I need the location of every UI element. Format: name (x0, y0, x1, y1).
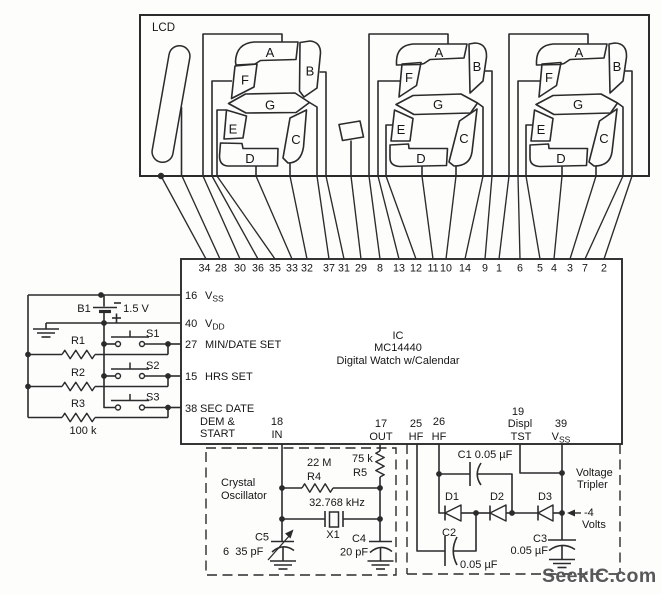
LCD backplane node (158, 173, 164, 179)
digit2 segment C lead (289, 164, 291, 177)
switch S2 (116, 374, 121, 379)
wire D3 to output node (553, 512, 562, 514)
svg-text:A: A (435, 45, 444, 60)
battery minus sign (114, 302, 121, 304)
wire LCD to IC pin 36 (212, 176, 258, 259)
svg-text:22 M: 22 M (307, 457, 331, 469)
svg-text:Crystal: Crystal (221, 477, 255, 489)
svg-text:40: 40 (185, 318, 197, 330)
digit2 segment C (283, 110, 307, 163)
svg-text:F: F (241, 73, 249, 88)
node battery bottom (101, 320, 107, 326)
wire S2 node down to R2 (167, 376, 169, 387)
wire pin 19 down (520, 444, 562, 473)
svg-text:30: 30 (234, 263, 246, 275)
svg-text:37: 37 (323, 263, 335, 275)
svg-text:33: 33 (286, 263, 298, 275)
svg-text:OUT: OUT (369, 431, 393, 443)
wire S1 node down to R1 (167, 344, 169, 355)
segment F lead (378, 81, 401, 176)
svg-text:3: 3 (567, 263, 573, 275)
svg-text:START: START (200, 428, 235, 440)
wire LCD to IC pin 13 (378, 176, 399, 259)
svg-text:HF: HF (409, 431, 424, 443)
wire LCD to IC pin 29 (351, 176, 361, 259)
segment E (391, 110, 413, 141)
svg-text:32.768 kHz: 32.768 kHz (309, 497, 365, 509)
node D2-D3 (509, 510, 515, 516)
svg-text:B1: B1 (77, 303, 90, 315)
svg-text:12: 12 (410, 263, 422, 275)
wire LCD to IC pin 2 (604, 176, 632, 259)
resistor R5 (376, 451, 384, 477)
LCD panel outline (140, 15, 649, 176)
svg-text:35: 35 (269, 263, 281, 275)
svg-text:20 pF: 20 pF (340, 547, 368, 559)
segment G (396, 94, 478, 115)
crystal oscillator dashed box (206, 448, 396, 575)
svg-text:27: 27 (185, 339, 197, 351)
svg-text:C2: C2 (442, 527, 456, 539)
svg-text:R3: R3 (71, 398, 85, 410)
segment F (399, 63, 421, 98)
wire LCD to IC pin 32 (290, 176, 307, 259)
wire LCD to IC pin 3 (570, 176, 596, 259)
svg-text:SeekIC.com: SeekIC.com (542, 565, 657, 587)
wire left bus vertical (27, 295, 29, 418)
LCD digit 4 group frame wire (509, 34, 632, 176)
svg-text:18: 18 (271, 416, 283, 428)
svg-text:34: 34 (199, 263, 211, 275)
node bus S1 (101, 341, 107, 347)
segment G (536, 94, 618, 115)
svg-text:IC: IC (393, 330, 404, 342)
segment E lead (526, 125, 533, 176)
svg-text:B: B (613, 59, 622, 74)
segment C (589, 109, 617, 166)
op IC U1 MC14440 body (181, 259, 622, 444)
svg-text:C4: C4 (352, 533, 366, 545)
svg-text:32: 32 (301, 263, 313, 275)
segment C (449, 109, 477, 166)
svg-text:R5: R5 (353, 467, 367, 479)
svg-text:14: 14 (459, 263, 471, 275)
svg-text:G: G (573, 97, 583, 112)
svg-text:IN: IN (272, 429, 283, 441)
svg-text:8: 8 (377, 263, 383, 275)
segment E (531, 110, 553, 141)
digit2 segment F lead (212, 81, 232, 176)
wire switch bus vertical (104, 323, 116, 408)
svg-text:2: 2 (601, 263, 607, 275)
svg-text:36: 36 (252, 263, 264, 275)
svg-text:S3: S3 (146, 392, 159, 404)
wire D1 to node (461, 512, 476, 514)
svg-text:0.05 µF: 0.05 µF (460, 559, 498, 571)
svg-text:Voltage: Voltage (576, 467, 613, 479)
svg-text:C1 0.05 µF: C1 0.05 µF (458, 449, 513, 461)
wire S3 to pin 38 (145, 407, 169, 409)
variable capacitor C5 (271, 541, 294, 543)
svg-text:HF: HF (432, 431, 447, 443)
svg-text:Tripler: Tripler (577, 479, 608, 491)
diode D3 (537, 506, 539, 521)
wire LCD to IC pin 34 (161, 176, 206, 259)
svg-text:13: 13 (393, 263, 405, 275)
wire LCD to IC pin 4 (554, 176, 562, 259)
digit2 segment A (236, 42, 299, 65)
segment B lead (485, 71, 493, 176)
svg-text:-4: -4 (584, 507, 594, 519)
svg-text:B: B (473, 59, 482, 74)
svg-text:C3: C3 (533, 533, 547, 545)
capacitor C4 (369, 541, 392, 543)
svg-text:G: G (265, 98, 275, 113)
node S1 right (165, 341, 171, 347)
svg-text:R1: R1 (71, 335, 85, 347)
node output -4V (559, 510, 565, 516)
wire LCD to IC pin 11 (422, 176, 433, 259)
capacitor C2 (444, 536, 446, 566)
wire pin 18 down (281, 444, 283, 541)
ground symbol (battery) (45, 323, 47, 329)
switch S1 (116, 342, 121, 347)
svg-text:15: 15 (185, 371, 197, 383)
segment D (530, 144, 588, 167)
wire LCD to IC pin 14 (465, 176, 483, 259)
svg-text:E: E (537, 122, 546, 137)
svg-text:C: C (459, 131, 468, 146)
svg-text:R4: R4 (307, 471, 321, 483)
node D1-D2 (473, 510, 479, 516)
digit2 segment E (224, 110, 247, 139)
svg-text:29: 29 (355, 263, 367, 275)
wire LCD to IC pin 9 (485, 176, 492, 259)
svg-text:28: 28 (215, 263, 227, 275)
ground symbol C3 (549, 559, 575, 561)
segment B (609, 43, 627, 93)
digit2 segment D lead (255, 166, 257, 176)
svg-text:F: F (545, 70, 553, 85)
ground symbol C5 (270, 560, 296, 562)
svg-text:LCD: LCD (152, 22, 175, 34)
svg-text:MC14440: MC14440 (374, 342, 422, 354)
wire VDD rail (pin40) (46, 322, 181, 324)
ground symbol C4 (368, 560, 394, 562)
svg-text:100 k: 100 k (70, 425, 97, 437)
digit2 segment E lead (217, 110, 227, 176)
node left bus R1 (25, 352, 31, 358)
switch S3 (116, 405, 121, 410)
output arrow -4 Volts (570, 512, 581, 514)
crystal X1 (282, 518, 325, 520)
segment G lead (618, 103, 624, 176)
svg-text:G: G (433, 97, 443, 112)
node C1 left (436, 471, 442, 477)
svg-text:HRS SET: HRS SET (205, 371, 253, 383)
wire node to D3 (512, 512, 538, 514)
wire bus to S1 (104, 343, 116, 345)
segment A (537, 44, 608, 65)
wire C1 to D2 node (478, 474, 512, 513)
svg-text:SEC DATE: SEC DATE (200, 403, 254, 415)
svg-text:E: E (397, 122, 406, 137)
wire node to D2 (476, 512, 490, 514)
node bus S2 (101, 373, 107, 379)
node osc out lower (377, 516, 383, 522)
wire LCD to IC pin 1 (499, 176, 509, 259)
node osc in lower (279, 516, 285, 522)
wire bus to S2 (104, 375, 116, 377)
LCD separator square (339, 121, 364, 141)
svg-text:D1: D1 (445, 491, 459, 503)
wire LCD to IC pin 35 (217, 176, 275, 259)
segment A (397, 44, 468, 65)
svg-text:Displ: Displ (508, 418, 532, 430)
svg-text:S2: S2 (146, 360, 159, 372)
node osc out upper (377, 485, 383, 491)
separator lead (350, 141, 352, 177)
wire LCD to IC pin 12 (386, 176, 416, 259)
capacitor C1 (439, 473, 470, 475)
digit2 segment G (229, 93, 310, 113)
svg-text:38: 38 (185, 403, 197, 415)
svg-text:D2: D2 (490, 491, 504, 503)
svg-text:5: 5 (537, 263, 543, 275)
svg-text:A: A (575, 45, 584, 60)
wire pin 39 down (561, 444, 563, 540)
wire LCD to IC pin 31 (326, 176, 344, 259)
wire pin 17 down (379, 444, 381, 451)
svg-text:19: 19 (512, 406, 524, 418)
digit2 segment F (232, 64, 258, 99)
wire LCD to IC pin 6 (518, 176, 520, 259)
LCD digit 3 group frame wire (369, 34, 492, 176)
svg-text:1: 1 (496, 263, 502, 275)
segment B lead (625, 71, 633, 176)
segment B (469, 43, 487, 93)
segment F lead (518, 81, 541, 176)
LCD digit "1" segment (150, 44, 191, 164)
wire S1 to pin 27 (145, 343, 169, 345)
segment E lead (386, 125, 393, 176)
node battery top (98, 292, 104, 298)
svg-text:R2: R2 (71, 367, 85, 379)
wire S3 node down to R3 (167, 408, 169, 418)
svg-text:16: 16 (185, 290, 197, 302)
svg-text:Oscillator: Oscillator (221, 490, 267, 502)
battery plus sign (112, 317, 121, 319)
svg-text:S1: S1 (146, 328, 159, 340)
svg-text:1.5 V: 1.5 V (123, 303, 149, 315)
wire pin 25 down (417, 444, 445, 551)
segment D lead (421, 166, 423, 176)
svg-text:Digital Watch w/Calendar: Digital Watch w/Calendar (336, 355, 459, 367)
IC pin number row (199, 263, 607, 275)
C5 trimmer arrow (268, 535, 290, 560)
segment G lead (478, 103, 484, 176)
resistor R1 (28, 354, 62, 356)
svg-text:9: 9 (482, 263, 488, 275)
svg-text:C: C (291, 132, 300, 147)
capacitor C3 (548, 539, 576, 541)
wire LCD to IC pin 8 (369, 176, 380, 259)
svg-text:26: 26 (433, 416, 445, 428)
wire LCD to IC pin 30 (203, 176, 240, 259)
segment C lead (455, 166, 457, 176)
svg-text:DEM &: DEM & (200, 416, 236, 428)
wire D2 to node (506, 512, 512, 514)
segment F (539, 63, 561, 98)
svg-text:X1: X1 (326, 529, 339, 541)
diode D2 (489, 506, 491, 521)
svg-text:31: 31 (338, 263, 350, 275)
svg-text:6: 6 (517, 263, 523, 275)
wire pin 26 down (438, 444, 440, 474)
svg-text:C: C (599, 131, 608, 146)
battery B1 (103, 295, 105, 307)
wire LCD to IC pin 37 (317, 176, 329, 259)
svg-text:D: D (245, 151, 254, 166)
svg-text:MIN/DATE SET: MIN/DATE SET (205, 339, 281, 351)
node left bus R2 (25, 384, 31, 390)
LCD digit 2 (tens) group frame wire (203, 34, 282, 176)
svg-text:A: A (266, 45, 275, 60)
wire pin26 node down to D1 (439, 474, 445, 513)
wire LCD to IC pin 5 (526, 176, 540, 259)
svg-text:D3: D3 (538, 491, 552, 503)
svg-text:6 35 pF: 6 35 pF (223, 546, 264, 558)
svg-text:39: 39 (555, 418, 567, 430)
svg-text:10: 10 (440, 263, 452, 275)
svg-text:E: E (229, 122, 238, 137)
wire VSS rail (pin16) (28, 294, 181, 296)
digit2 segment B (300, 41, 321, 97)
resistor R4 (282, 487, 302, 489)
wire R5 to node (379, 477, 381, 542)
wire LCD to IC pin 7 (585, 176, 623, 259)
wire S2 to pin 15 (145, 375, 169, 377)
voltage tripler dashed box (406, 444, 408, 574)
wire LCD to IC pin 33 (256, 176, 292, 259)
svg-text:B: B (306, 64, 315, 79)
resistor R3 (28, 417, 62, 419)
svg-text:TST: TST (511, 431, 532, 443)
svg-text:Volts: Volts (582, 519, 606, 531)
svg-text:11: 11 (427, 263, 438, 275)
diode D1 (444, 506, 446, 521)
svg-text:D: D (416, 151, 425, 166)
svg-text:F: F (405, 70, 413, 85)
segment D (390, 144, 448, 167)
svg-text:7: 7 (582, 263, 588, 275)
svg-text:0.05 µF: 0.05 µF (510, 545, 548, 557)
svg-text:25: 25 (410, 418, 422, 430)
wire LCD to IC pin 10 (446, 176, 456, 259)
svg-text:4: 4 (551, 263, 557, 275)
svg-text:75 k: 75 k (352, 453, 373, 465)
digit2 segment D (220, 143, 279, 166)
node VSS-pin19 (559, 470, 565, 476)
digit2 segment G lead (310, 103, 318, 177)
svg-text:17: 17 (375, 418, 387, 430)
resistor R2 (28, 386, 62, 388)
node S2 right (165, 373, 171, 379)
segment D lead (561, 166, 563, 176)
node S3 right (165, 405, 171, 411)
svg-text:D: D (556, 151, 565, 166)
node osc in upper (279, 485, 285, 491)
segment C lead (595, 166, 597, 176)
wire lead from digit 1 segment (181, 107, 183, 176)
wire C2 to node (454, 513, 476, 551)
wire LCD to IC pin 28 (182, 176, 220, 259)
digit2 segment B lead (320, 72, 326, 176)
svg-text:C5: C5 (255, 532, 269, 544)
